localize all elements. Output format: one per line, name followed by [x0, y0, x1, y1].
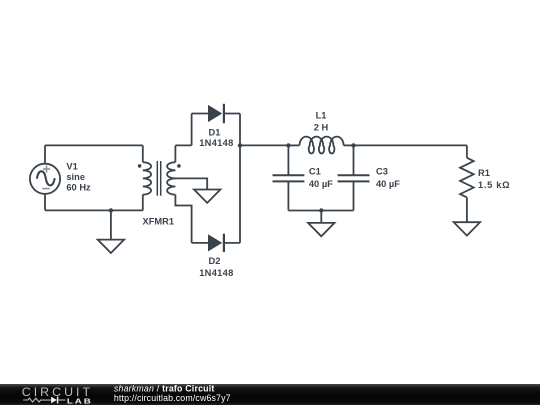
wire XFMR1 center tap: [173, 178, 208, 189]
wire D1 branch riser: [191, 114, 193, 146]
ground symbol below R1: [454, 222, 480, 235]
svg-text:sine: sine: [66, 172, 85, 182]
wire C1 top lead: [287, 145, 289, 175]
ground symbol at center tap: [194, 190, 220, 203]
node junction dot rectifier output: [238, 143, 242, 147]
wire rail rectifier output to L1: [240, 144, 288, 146]
ground symbol below capacitors: [308, 223, 334, 236]
wire V1 bottom lead: [44, 194, 46, 211]
svg-text:40 µF: 40 µF: [309, 179, 333, 189]
wire C3 top lead: [353, 145, 355, 175]
wire D1 output drop to rail: [239, 114, 241, 146]
wire bottom rail XFMR1 primary to V1: [45, 209, 143, 211]
svg-text:LAB: LAB: [67, 397, 93, 405]
node junction dot V1 ground net: [109, 208, 113, 212]
svg-text:C3: C3: [376, 167, 388, 177]
resistor R1: [460, 158, 474, 198]
label C3 name and value: [376, 167, 400, 190]
wire D2 cathode lead: [224, 242, 240, 244]
capacitor C3: [338, 175, 370, 181]
wire rail C3 to R1: [354, 144, 467, 146]
label V1 name and value: [66, 162, 91, 193]
XFMR1 core: [157, 161, 160, 196]
node junction dot L1 right / C3: [351, 143, 355, 147]
wire D2 anode lead: [192, 242, 208, 244]
wire rectifier output down to D2: [239, 145, 241, 243]
wire bottom rail C1 to C3: [288, 210, 353, 212]
diode D1: [208, 104, 224, 123]
label L1 name and value: [314, 111, 329, 133]
wire XFMR1 secondary top lead: [174, 145, 176, 162]
wire XFMR1 primary top lead: [142, 145, 144, 162]
capacitor C1: [273, 175, 305, 181]
wire R1 top lead: [466, 145, 468, 157]
transformer XFMR1: [138, 161, 181, 196]
svg-text:L1: L1: [316, 111, 327, 121]
svg-text:R1: R1: [478, 168, 490, 178]
svg-text:1N4148: 1N4148: [199, 138, 233, 148]
svg-text:D2: D2: [209, 256, 221, 266]
svg-text:V1: V1: [66, 162, 77, 172]
svg-text:1N4148: 1N4148: [199, 268, 233, 278]
XFMR1 primary winding: [143, 162, 151, 194]
diode D2: [208, 234, 224, 252]
svg-text:1.5 kΩ: 1.5 kΩ: [478, 180, 510, 190]
svg-text:2 H: 2 H: [314, 123, 329, 133]
label C1 name and value: [309, 167, 333, 190]
svg-text:C1: C1: [309, 167, 321, 177]
label D1 name and value: [199, 127, 233, 148]
wire R1 bottom lead: [466, 197, 468, 222]
svg-text:60 Hz: 60 Hz: [66, 183, 91, 193]
svg-text:http://circuitlab.com/cw6s7y7: http://circuitlab.com/cw6s7y7: [114, 393, 231, 403]
wire top rail V1 to XFMR1 primary: [45, 144, 143, 146]
CircuitLab logo schematic squiggle: wire, resistor zigzag, diode: [23, 397, 65, 404]
wire D1 cathode lead: [224, 113, 240, 115]
node junction dot L1 left / C1: [286, 143, 290, 147]
wire L1 right lead: [344, 144, 354, 146]
wire ground stem below capacitors: [320, 211, 322, 223]
wire XFMR1 primary bottom lead: [142, 195, 144, 211]
inductor L1: [300, 137, 344, 154]
svg-text:40 µF: 40 µF: [376, 179, 400, 189]
wire L1 left lead: [288, 144, 299, 146]
label D2 name and value: [199, 256, 233, 278]
wire V1 top lead: [44, 145, 46, 163]
ground symbol below V1: [98, 240, 124, 253]
XFMR1 secondary winding: [167, 162, 175, 194]
svg-text:D1: D1: [209, 127, 221, 137]
voltage source V1: [30, 164, 60, 194]
wire C1 bottom lead: [287, 181, 289, 210]
wire XFMR1 secondary bottom lead: [175, 195, 191, 243]
label R1 name and value: [478, 168, 510, 190]
XFMR1 primary phase dot: [138, 164, 142, 168]
XFMR1 secondary phase dot: [177, 164, 181, 168]
svg-text:XFMR1: XFMR1: [143, 216, 175, 226]
wire secondary top to D1 branch: [175, 144, 191, 146]
node junction dot capacitor ground net: [319, 208, 323, 212]
wire C3 bottom lead: [353, 181, 355, 210]
wire D1 anode lead: [192, 113, 208, 115]
wire ground stem below V1: [110, 210, 112, 239]
